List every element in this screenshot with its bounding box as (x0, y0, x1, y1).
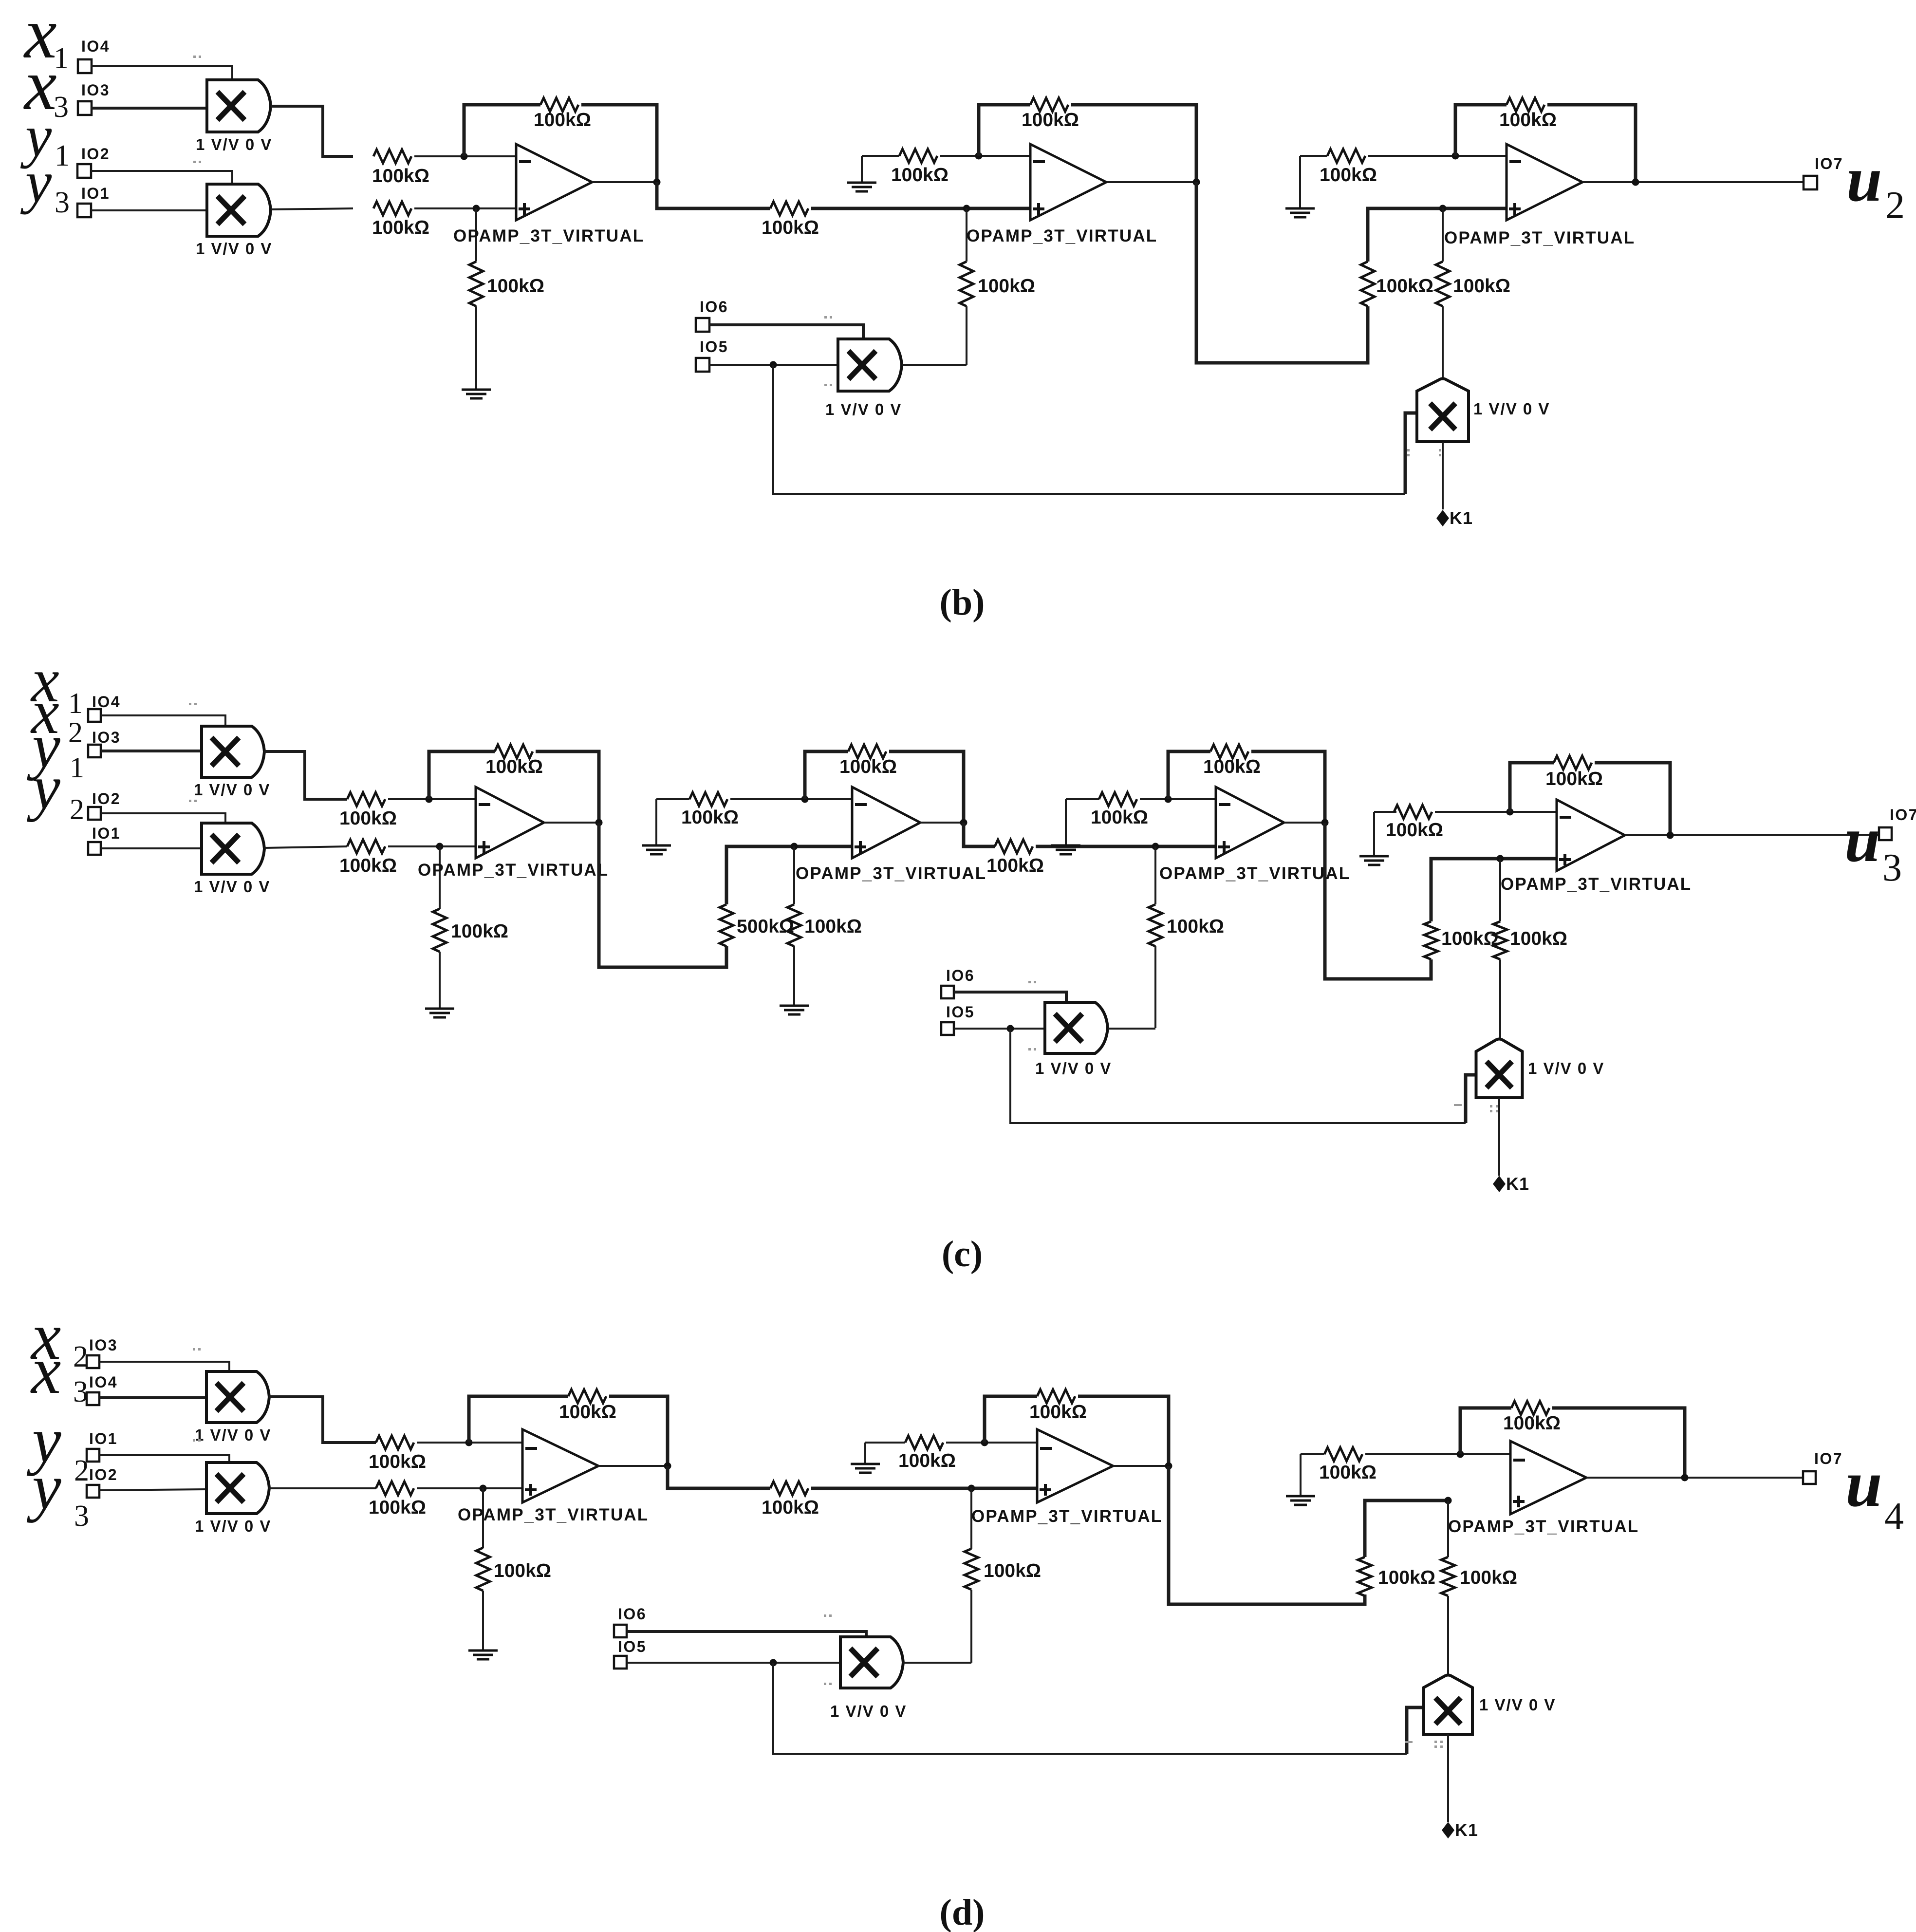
svg-text:100kΩ: 100kΩ (1320, 165, 1377, 186)
svg-text:1 V/V 0 V: 1 V/V 0 V (1473, 400, 1550, 418)
svg-text:3: 3 (74, 1500, 89, 1533)
svg-text:OPAMP_3T_VIRTUAL: OPAMP_3T_VIRTUAL (453, 226, 644, 245)
svg-text:IO3: IO3 (92, 729, 121, 746)
svg-text:100kΩ: 100kΩ (1022, 110, 1079, 131)
svg-text:1 V/V 0 V: 1 V/V 0 V (196, 240, 272, 258)
svg-text:1 V/V 0 V: 1 V/V 0 V (195, 1426, 271, 1444)
svg-text:IO1: IO1 (92, 825, 121, 842)
svg-text:OPAMP_3T_VIRTUAL: OPAMP_3T_VIRTUAL (796, 864, 986, 883)
svg-text:IO5: IO5 (946, 1003, 975, 1021)
svg-text:2: 2 (1885, 184, 1905, 227)
svg-text:1 V/V 0 V: 1 V/V 0 V (1035, 1059, 1112, 1077)
svg-text:3: 3 (54, 91, 69, 124)
svg-text:100kΩ: 100kΩ (839, 756, 897, 777)
svg-text:100kΩ: 100kΩ (1386, 820, 1443, 841)
svg-text:100kΩ: 100kΩ (559, 1402, 616, 1423)
svg-text:100kΩ: 100kΩ (1378, 1567, 1435, 1588)
svg-text:100kΩ: 100kΩ (487, 276, 544, 297)
svg-text:OPAMP_3T_VIRTUAL: OPAMP_3T_VIRTUAL (458, 1505, 649, 1524)
svg-text:IO3: IO3 (89, 1336, 118, 1354)
svg-text:100kΩ: 100kΩ (1499, 110, 1557, 131)
svg-text:100kΩ: 100kΩ (891, 165, 949, 186)
svg-text:IO2: IO2 (89, 1466, 118, 1483)
svg-text:OPAMP_3T_VIRTUAL: OPAMP_3T_VIRTUAL (418, 861, 609, 880)
svg-text:100kΩ: 100kΩ (494, 1560, 551, 1581)
svg-text:IO6: IO6 (946, 967, 975, 984)
svg-text:1 V/V 0 V: 1 V/V 0 V (1528, 1059, 1604, 1077)
svg-text:(d): (d) (940, 1892, 985, 1932)
svg-text:100kΩ: 100kΩ (369, 1497, 426, 1518)
svg-text:1 V/V 0 V: 1 V/V 0 V (194, 878, 270, 896)
svg-text:(b): (b) (940, 582, 985, 623)
svg-text:IO2: IO2 (92, 790, 121, 807)
svg-text:IO3: IO3 (81, 81, 110, 99)
svg-text:u: u (1844, 804, 1880, 875)
svg-text:OPAMP_3T_VIRTUAL: OPAMP_3T_VIRTUAL (1444, 228, 1635, 247)
svg-text:100kΩ: 100kΩ (986, 855, 1044, 876)
svg-text:100kΩ: 100kΩ (804, 916, 862, 937)
svg-text:IO6: IO6 (700, 298, 728, 316)
svg-text:OPAMP_3T_VIRTUAL: OPAMP_3T_VIRTUAL (1501, 875, 1692, 894)
svg-text:1 V/V 0 V: 1 V/V 0 V (196, 135, 272, 153)
svg-text:100kΩ: 100kΩ (762, 1497, 819, 1518)
svg-text:100kΩ: 100kΩ (1545, 769, 1603, 789)
svg-text:IO2: IO2 (81, 145, 110, 163)
svg-text:IO7: IO7 (1890, 806, 1916, 824)
svg-text:1 V/V 0 V: 1 V/V 0 V (194, 781, 270, 799)
svg-text:OPAMP_3T_VIRTUAL: OPAMP_3T_VIRTUAL (1448, 1517, 1639, 1536)
svg-text:100kΩ: 100kΩ (1376, 276, 1433, 297)
svg-text:1 V/V 0 V: 1 V/V 0 V (195, 1517, 271, 1535)
svg-text:x: x (30, 1333, 61, 1407)
svg-text:100kΩ: 100kΩ (1167, 916, 1224, 937)
svg-text:100kΩ: 100kΩ (485, 756, 543, 777)
svg-text:1: 1 (55, 139, 70, 172)
svg-text:100kΩ: 100kΩ (762, 217, 819, 238)
svg-text:1 V/V 0 V: 1 V/V 0 V (1479, 1696, 1556, 1714)
svg-text:IO6: IO6 (618, 1605, 647, 1623)
svg-text:100kΩ: 100kΩ (1441, 928, 1499, 949)
svg-text:2: 2 (68, 716, 83, 749)
svg-text:100kΩ: 100kΩ (339, 808, 397, 829)
svg-text:100kΩ: 100kΩ (1510, 928, 1567, 949)
svg-text:100kΩ: 100kΩ (372, 166, 429, 187)
svg-text:y: y (27, 752, 60, 823)
svg-text:100kΩ: 100kΩ (1203, 756, 1261, 777)
svg-text:IO7: IO7 (1814, 1450, 1843, 1467)
svg-text:K1: K1 (1450, 508, 1473, 528)
svg-text:100kΩ: 100kΩ (1453, 276, 1510, 297)
svg-text:100kΩ: 100kΩ (1503, 1413, 1561, 1434)
svg-text:IO5: IO5 (618, 1638, 647, 1655)
svg-text:OPAMP_3T_VIRTUAL: OPAMP_3T_VIRTUAL (967, 226, 1157, 245)
svg-text:IO4: IO4 (89, 1373, 118, 1391)
svg-text:1: 1 (68, 687, 83, 719)
svg-text:3: 3 (1882, 846, 1902, 889)
svg-text:100kΩ: 100kΩ (898, 1450, 956, 1471)
svg-text:100kΩ: 100kΩ (978, 276, 1035, 297)
svg-text:IO4: IO4 (81, 38, 110, 55)
svg-text:OPAMP_3T_VIRTUAL: OPAMP_3T_VIRTUAL (1159, 864, 1350, 883)
svg-text:100kΩ: 100kΩ (369, 1451, 426, 1472)
svg-text:1 V/V 0 V: 1 V/V 0 V (825, 400, 902, 418)
svg-text:3: 3 (55, 186, 70, 219)
svg-text:IO1: IO1 (81, 185, 110, 202)
svg-text:100kΩ: 100kΩ (1319, 1462, 1377, 1483)
svg-text:1: 1 (70, 751, 84, 784)
svg-text:(c): (c) (942, 1234, 983, 1275)
svg-text:4: 4 (1884, 1495, 1904, 1538)
svg-text:IO1: IO1 (89, 1430, 118, 1447)
svg-text:u: u (1845, 1447, 1882, 1520)
svg-text:2: 2 (70, 793, 84, 825)
svg-text:100kΩ: 100kΩ (1029, 1402, 1087, 1423)
svg-text:100kΩ: 100kΩ (984, 1560, 1041, 1581)
svg-text:100kΩ: 100kΩ (451, 921, 508, 942)
svg-text:K1: K1 (1455, 1820, 1478, 1840)
svg-text:IO7: IO7 (1815, 155, 1843, 172)
svg-text:OPAMP_3T_VIRTUAL: OPAMP_3T_VIRTUAL (971, 1507, 1162, 1526)
svg-text:K1: K1 (1506, 1174, 1529, 1194)
svg-text:IO5: IO5 (700, 338, 728, 356)
svg-text:100kΩ: 100kΩ (534, 110, 591, 131)
svg-text:100kΩ: 100kΩ (372, 217, 429, 238)
svg-text:100kΩ: 100kΩ (1460, 1567, 1517, 1588)
svg-text:100kΩ: 100kΩ (339, 855, 397, 876)
svg-text:100kΩ: 100kΩ (1091, 807, 1148, 828)
svg-text:1 V/V 0 V: 1 V/V 0 V (830, 1702, 907, 1720)
svg-text:100kΩ: 100kΩ (681, 807, 739, 828)
svg-text:IO4: IO4 (92, 693, 121, 711)
svg-text:u: u (1846, 143, 1882, 215)
